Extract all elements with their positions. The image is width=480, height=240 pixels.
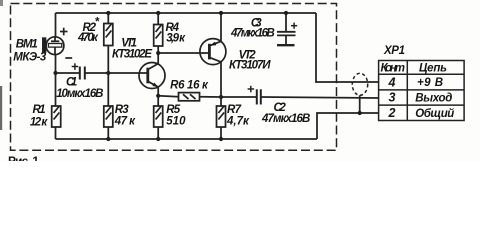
wire top +9V rail [56,12,317,14]
node B junction [106,71,110,75]
connector XP1 table [379,61,465,121]
chassis bar under C3 [277,44,295,46]
resistor R2 [106,11,110,15]
svg-text:4,7к: 4,7к [226,116,250,128]
svg-text:2: 2 [388,106,396,120]
resistor R1 [55,73,57,106]
capacitor C2 [221,96,257,98]
svg-text:10мкх16В: 10мкх16В [56,88,103,100]
svg-text:+9 В: +9 В [417,77,443,89]
svg-text:R7: R7 [227,104,242,116]
resistor R5 [157,96,159,106]
svg-text:Общий: Общий [415,108,454,120]
svg-text:510: 510 [166,116,186,128]
wire node B to VT1 base [108,72,148,74]
svg-text:С1: С1 [66,76,77,88]
node A junction [53,71,57,75]
svg-text:*: * [95,17,100,29]
transistor VT2 [200,39,226,65]
svg-text:R3: R3 [115,104,130,116]
svg-text:R1: R1 [33,104,46,116]
wire mic minus lead [55,55,57,73]
svg-text:Конт: Конт [381,63,406,75]
wire mic plus lead [55,13,57,37]
capacitor C3 [284,11,288,15]
svg-text:ВМ1: ВМ1 [16,39,38,51]
svg-text:47мкх16В: 47мкх16В [261,113,310,125]
wire common riser to connector pin 2 [317,113,379,139]
svg-text:R6 16 к: R6 16 к [170,79,209,91]
node VT1 emitter junction [156,94,160,98]
svg-text:4: 4 [388,76,396,90]
svg-text:12 к: 12 к [30,116,48,128]
svg-text:МКЭ-3: МКЭ-3 [13,52,47,64]
microphone BM1 minus sign [65,57,72,59]
wire C2 to connector pin 3 [261,97,379,98]
wire shield to common [359,95,361,113]
resistor R4 [156,11,160,15]
microphone BM1 symbol [46,37,64,55]
svg-text:47мкх16В: 47мкх16В [230,27,275,39]
svg-text:3: 3 [389,91,396,105]
svg-text:Рис. 1: Рис. 1 [8,154,39,161]
wire C1 to node B [85,72,109,74]
svg-text:Выход: Выход [415,93,452,105]
shield screen ellipse [352,73,367,95]
svg-text:R5: R5 [166,104,181,116]
node VT1 collector junction [156,51,160,55]
resistor R6 [158,95,178,98]
svg-text:470к: 470к [77,32,99,44]
svg-text:3,9 к: 3,9 к [166,33,186,45]
node VT2 collector junction [219,95,223,99]
svg-text:Цепь: Цепь [419,63,447,75]
scan smudge left edge [0,86,2,130]
wire +9V descent to connector pin 4 [316,13,379,82]
transistor VT1 [139,63,165,89]
wire bottom common rail [56,138,318,140]
svg-text:47 к: 47 к [114,116,136,128]
capacitor C1 [79,67,81,80]
microphone BM1 plus sign [60,28,68,36]
svg-text:КТ3107И: КТ3107И [229,60,271,72]
svg-text:ХР1: ХР1 [383,45,405,57]
wire VT1 collector to VT2 base [158,52,209,54]
resistor R7 [220,97,222,106]
wire node A to C1 [56,72,80,74]
resistor R3 [107,73,109,106]
svg-text:КТ3102Е: КТ3102Е [112,49,152,61]
enclosure dashed outline [11,4,337,151]
